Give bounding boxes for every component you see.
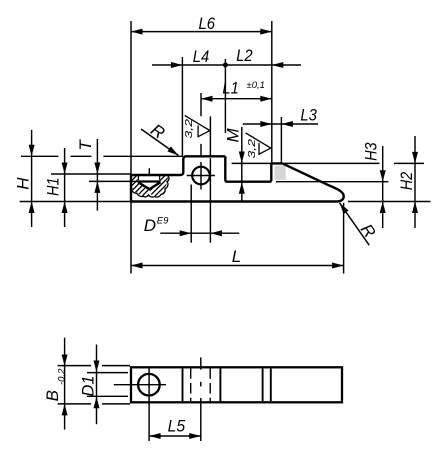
- svg-text:L2: L2: [236, 46, 253, 65]
- svg-text:H: H: [13, 177, 32, 190]
- svg-text:D: D: [144, 216, 156, 235]
- svg-text:3,2: 3,2: [183, 119, 195, 139]
- svg-text:L1: L1: [222, 78, 239, 97]
- svg-text:D1: D1: [79, 376, 98, 397]
- svg-text:L: L: [232, 247, 241, 266]
- svg-text:L5: L5: [168, 417, 186, 436]
- svg-text:L6: L6: [199, 14, 216, 33]
- svg-text:B: B: [43, 390, 62, 401]
- svg-text:T: T: [76, 139, 95, 151]
- svg-text:3,2: 3,2: [246, 139, 258, 159]
- svg-text:H1: H1: [44, 178, 63, 197]
- svg-text:H3: H3: [361, 142, 380, 161]
- svg-text:-0,2: -0,2: [57, 368, 68, 385]
- svg-text:L4: L4: [193, 47, 210, 66]
- svg-text:E9: E9: [157, 215, 169, 226]
- svg-text:L3: L3: [300, 106, 317, 125]
- svg-text:M: M: [224, 128, 243, 143]
- svg-text:±0,1: ±0,1: [247, 80, 265, 91]
- svg-text:H2: H2: [397, 171, 416, 190]
